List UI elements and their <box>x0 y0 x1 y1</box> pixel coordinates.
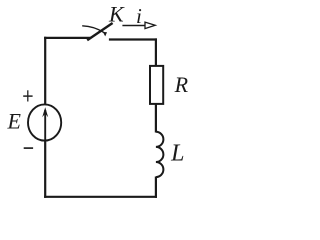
wire: right vertical below inductor <box>155 177 157 198</box>
wire: bottom horizontal segment <box>44 196 157 198</box>
plus sign <box>23 95 32 97</box>
wire: left vertical segment <box>44 37 46 198</box>
voltage source E circle <box>28 104 61 140</box>
switch K closing arc arrow <box>82 26 104 33</box>
resistor R body <box>150 66 163 104</box>
voltage source arrow <box>44 110 46 140</box>
svg-text:L: L <box>170 140 184 166</box>
minus sign <box>24 147 33 149</box>
switch K blade <box>87 23 112 40</box>
svg-text:i: i <box>136 4 142 28</box>
svg-text:E: E <box>6 108 21 133</box>
svg-text:R: R <box>174 72 189 97</box>
wire: right vertical between resistor and inductor <box>155 104 157 133</box>
current arrow i <box>122 25 145 27</box>
wire: right vertical segment <box>155 38 157 66</box>
svg-text:K: K <box>108 1 125 26</box>
wire: top-left horizontal segment <box>44 37 91 39</box>
inductor L coil <box>156 132 164 177</box>
wire: top-right horizontal segment <box>109 38 157 40</box>
